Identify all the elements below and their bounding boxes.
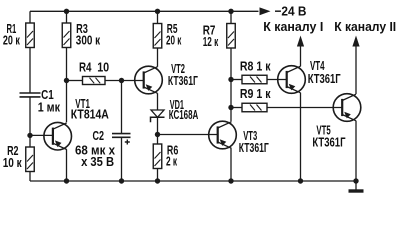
resistor R4	[83, 77, 106, 85]
wire top supply rail	[30, 10, 259, 12]
svg-text:10 к: 10 к	[3, 155, 22, 170]
wire R9 left lead	[231, 107, 242, 109]
transistor VT5	[333, 94, 361, 122]
node VT3 emitter rail	[228, 178, 233, 183]
node R5 top	[155, 9, 160, 14]
svg-text:КТ814А: КТ814А	[71, 107, 109, 122]
transistor VT3	[209, 121, 237, 149]
wire VT1 emitter to rail	[66, 149, 68, 181]
node R3 top	[64, 9, 69, 14]
svg-text:R9 1 к: R9 1 к	[240, 86, 271, 101]
wire R8 left lead	[231, 79, 242, 81]
resistor R7	[227, 24, 236, 49]
node VT1 base junction	[27, 133, 32, 138]
node R9 left junction	[228, 105, 233, 110]
wire rail to R7	[230, 11, 232, 23]
wire R5 to VT2 collector	[157, 48, 159, 67]
wire C1 to R2	[29, 97, 31, 147]
svg-text:КТ361Г: КТ361Г	[308, 71, 341, 86]
node R8 left junction	[228, 77, 233, 82]
svg-text:КС168А: КС168А	[169, 107, 199, 122]
node R4 left junction	[64, 78, 69, 83]
resistor R1	[26, 23, 35, 48]
wire R4 left lead	[67, 80, 83, 82]
resistor R2	[26, 147, 35, 172]
svg-text:КТ361Г: КТ361Г	[312, 135, 346, 150]
node VT1 emitter rail	[64, 178, 69, 183]
wire bottom rail	[30, 180, 356, 182]
svg-text:КТ361Г: КТ361Г	[239, 140, 269, 155]
wire VT4 emitter to rail	[300, 93, 302, 181]
wire R6 to rail	[157, 169, 159, 182]
svg-text:К каналу I: К каналу I	[263, 19, 323, 34]
svg-text:х 35 В: х 35 В	[81, 154, 114, 169]
resistor R6	[153, 144, 162, 169]
resistor R8	[242, 75, 267, 84]
svg-text:20 к: 20 к	[166, 32, 182, 47]
node C2 top junction	[119, 78, 124, 83]
svg-text:20 к: 20 к	[3, 32, 20, 47]
wire R4 to VT2 base	[105, 80, 144, 82]
wire left column x=30	[29, 11, 31, 23]
wire R9 to VT5 base	[267, 107, 342, 109]
capacitor C1	[20, 93, 41, 97]
svg-text:КТ361Г: КТ361Г	[168, 73, 198, 88]
wire R7 to VT3 collector	[230, 48, 232, 121]
resistor R3	[62, 23, 71, 48]
wire R1 to C1	[29, 48, 31, 94]
wire rail to R5	[157, 11, 159, 23]
svg-text:−24 В: −24 В	[275, 4, 307, 19]
wire VT3 emitter to rail	[230, 148, 232, 181]
wire C2 to rail	[121, 137, 123, 181]
node VT4 emitter rail	[298, 178, 303, 183]
arrow to channel II	[355, 46, 357, 94]
svg-text:R4: R4	[79, 60, 92, 75]
capacitor C2	[112, 134, 131, 145]
node R6 rail	[155, 178, 160, 183]
svg-text:2 к: 2 к	[166, 154, 177, 169]
svg-text:R8 1 к: R8 1 к	[240, 59, 271, 74]
transistor VT1	[44, 122, 72, 150]
wire VT1 base	[30, 134, 53, 136]
svg-text:12 к: 12 к	[203, 34, 219, 49]
svg-text:C2: C2	[93, 128, 105, 143]
svg-text:К каналу II: К каналу II	[334, 19, 396, 34]
node R7 top	[228, 9, 233, 14]
arrow -24V supply	[260, 7, 271, 15]
transistor VT2	[135, 66, 163, 94]
resistor R9	[242, 103, 267, 112]
ground	[349, 189, 364, 192]
wire VT5 emitter to rail	[355, 121, 357, 181]
wire R2 to rail	[29, 172, 31, 182]
wire ground stub	[355, 181, 357, 190]
svg-text:1 мк: 1 мк	[38, 100, 61, 115]
wire R3 to VT1 collector	[66, 48, 68, 123]
wire VD1 to R6	[157, 117, 159, 144]
wire VT2 emitter to VD1	[157, 93, 159, 110]
diode VD1 zener	[151, 110, 165, 122]
wire R8 to VT4 base	[267, 79, 287, 81]
wire VT3 base	[158, 134, 218, 136]
svg-text:300 к: 300 к	[76, 32, 101, 47]
resistor R5	[153, 24, 162, 49]
transistor VT4	[278, 66, 306, 94]
node VD1 R6 VT3 base junction	[155, 132, 160, 137]
node VT5 emitter rail ground	[353, 178, 358, 183]
node C2 rail	[119, 178, 124, 183]
wire junction to C2	[121, 81, 123, 134]
arrow to channel I	[300, 46, 302, 66]
wire rail to R3	[66, 11, 68, 23]
svg-text:10: 10	[97, 60, 109, 75]
